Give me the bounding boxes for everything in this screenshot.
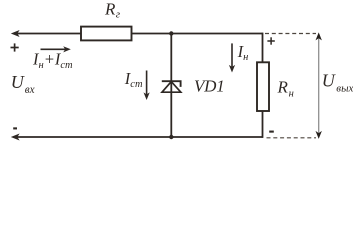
- zener diode VD1 symbol: triangle (anode below): [162, 82, 181, 93]
- terminal + (input, top-left): [11, 43, 19, 51]
- dimension line Uвых: bottom arrowhead: [316, 131, 322, 139]
- current arrow Iн+Iст (pointing right): [41, 46, 71, 52]
- junction: bottom node of zener branch: [169, 135, 173, 139]
- resistor Rн (load) body: [257, 62, 269, 111]
- current arrow Iст (pointing down): [144, 71, 150, 101]
- terminal - (output, bottom-right): [269, 131, 274, 133]
- junction: top node of zener branch: [169, 31, 173, 35]
- svg-text:Iн+Iст: Iн+Iст: [32, 50, 73, 71]
- wire: top conductor from input to load: [14, 33, 263, 35]
- svg-text:вых: вых: [336, 83, 353, 95]
- wire: load branch vertical (top section): [262, 33, 264, 63]
- svg-text:Iн: Iн: [237, 42, 249, 63]
- terminal + (output, top-right): [267, 37, 274, 44]
- dimension line Uвых: top arrowhead: [316, 32, 322, 40]
- terminal - (input, bottom-left): [13, 127, 17, 129]
- wire: zener branch (vertical): [170, 34, 172, 138]
- wire: bottom conductor: [14, 136, 263, 138]
- svg-text:R: R: [277, 78, 289, 97]
- dashed leader: top output node to dimension line: [265, 33, 316, 35]
- resistor Rг (ballast) body: [81, 27, 132, 41]
- current arrow Iн (pointing down): [229, 43, 235, 72]
- dimension line Uвых: vertical shaft: [318, 38, 320, 135]
- arrowhead: top-left lead pointing left: [11, 30, 20, 37]
- svg-text:R: R: [104, 0, 116, 18]
- arrowhead: bottom-left lead pointing left: [11, 134, 20, 141]
- svg-text:Iст: Iст: [124, 69, 143, 90]
- svg-text:г: г: [116, 9, 121, 21]
- svg-text:VD1: VD1: [194, 77, 225, 96]
- wire: load branch vertical (bottom section): [262, 111, 264, 138]
- dashed leader: bottom output node to dimension line: [267, 137, 317, 139]
- svg-text:н: н: [289, 88, 294, 99]
- svg-text:U: U: [11, 72, 25, 92]
- zener diode VD1 symbol: cathode bar with right tick: [162, 81, 181, 87]
- svg-text:U: U: [322, 70, 336, 90]
- svg-text:вх: вх: [25, 84, 35, 96]
